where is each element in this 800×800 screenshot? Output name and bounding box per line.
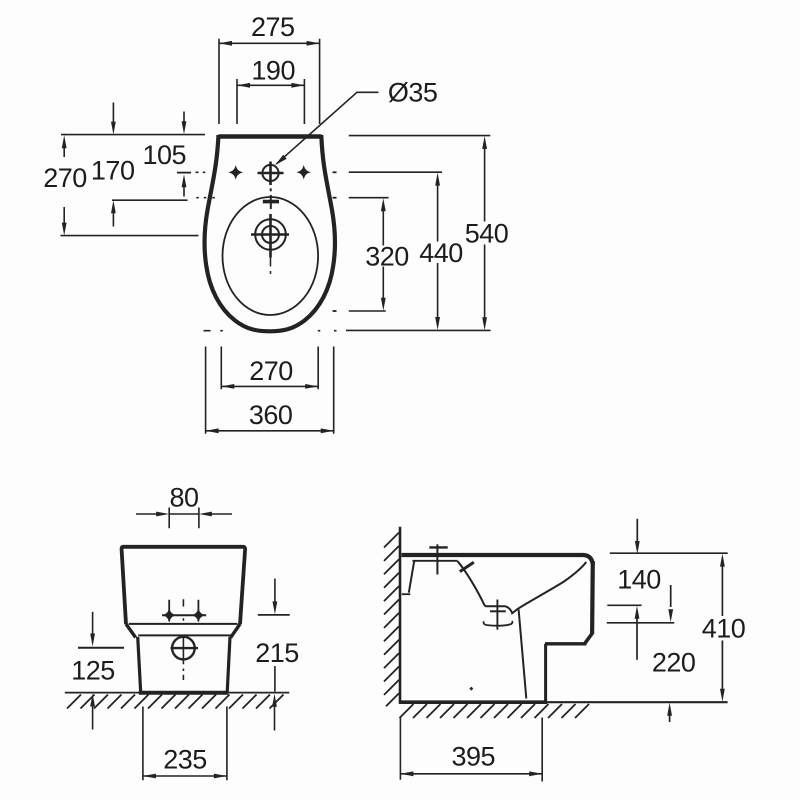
bidet rim top edge (plan) (219, 134, 322, 139)
svg-text:275: 275 (251, 12, 295, 42)
right reference line oval-top level (349, 197, 389, 199)
left fixing star (230, 167, 241, 178)
drain crosshair (251, 214, 289, 258)
dot before 320 bottom line (333, 310, 337, 312)
svg-text:170: 170 (91, 156, 135, 186)
reference line 220 top (607, 622, 674, 624)
fixing hole verticals (169, 600, 198, 622)
left chamfer to pedestal (126, 624, 136, 638)
bidet body outline (plan egg shape) (204, 135, 335, 331)
dim 275 line (219, 42, 320, 44)
trap center crossbar (490, 610, 506, 612)
front ground line thin (65, 692, 289, 694)
svg-text:105: 105 (143, 140, 187, 170)
dim 105 arrows (183, 112, 185, 124)
trap bottom arc (484, 621, 513, 626)
bottom tangent dash-dots (204, 330, 337, 332)
bowl interior profile (458, 561, 587, 613)
dim 320 (381, 198, 386, 311)
bidet front outline: top rim (122, 547, 246, 624)
dim 125 top arrow (92, 612, 94, 634)
dim 190 line (237, 84, 304, 86)
dim 80 arrowheads (156, 512, 212, 517)
svg-text:235: 235 (163, 745, 207, 775)
side ground hatch (400, 704, 590, 718)
right fixing star (298, 167, 309, 178)
svg-text:395: 395 (452, 742, 496, 772)
svg-text:80: 80 (169, 483, 198, 513)
svg-text:270: 270 (43, 163, 87, 193)
wall line (399, 527, 402, 702)
dim 80 line (136, 513, 232, 515)
fixing holes cross line (162, 614, 206, 616)
dim 125 reference tick (78, 647, 124, 649)
inner bowl oval (222, 197, 318, 315)
svg-text:190: 190 (251, 56, 295, 86)
svg-text:215: 215 (255, 638, 299, 668)
dim 215 lower shaft (274, 666, 276, 692)
dim 215 bottom arrow below ground (272, 694, 277, 707)
dim 80 extension ticks (169, 508, 199, 529)
dim 395 arrowheads (400, 771, 542, 776)
pedestal right edge (227, 637, 230, 693)
drain centerline dot left (204, 235, 207, 237)
dim 105 bottom tick (177, 172, 191, 174)
O35 leader arrowhead (275, 155, 287, 165)
dim 220 bottom arrow below ground (667, 703, 672, 716)
side rim inner line (413, 560, 458, 562)
front drain circle (172, 637, 195, 660)
drain pipe front line (519, 610, 527, 699)
drain centerline tail (270, 258, 272, 267)
right reference line top (rim level) (610, 552, 728, 554)
fixing hole star right (193, 610, 204, 621)
left reference line top (rim level) (61, 134, 205, 136)
oval-top centerline dots left (196, 197, 215, 199)
dim 235 extension lines (143, 707, 227, 781)
tap centerline dash-dots right (333, 171, 337, 173)
pedestal left edge (138, 637, 141, 693)
side rim top line (402, 555, 593, 564)
overflow slant tick (460, 562, 474, 571)
dim 125 bottom arrow below ground (90, 694, 95, 707)
dirt speck (469, 687, 473, 691)
right chamfer to pedestal (231, 624, 240, 638)
step front edge (544, 644, 547, 702)
tap centerline dash-dots left (196, 171, 206, 173)
right reference line tap level (349, 171, 442, 173)
dim 275 extension lines (219, 39, 320, 124)
svg-text:Ø35: Ø35 (388, 78, 438, 108)
svg-text:360: 360 (249, 400, 293, 430)
wall hatch (384, 533, 399, 707)
back inlet hook line (409, 561, 415, 593)
trap centerline vertical (496, 600, 498, 630)
step top line (545, 642, 587, 645)
dim 215 reference tick (258, 614, 290, 616)
dim 270 bottom arrowheads (221, 384, 318, 389)
svg-text:140: 140 (617, 564, 661, 594)
front ground hatch (67, 695, 284, 709)
left reference line low (drain level) (61, 235, 199, 237)
fixing hole star left (164, 610, 175, 621)
right reference line rim level (349, 135, 491, 137)
svg-text:125: 125 (71, 655, 115, 685)
dim 360 extension lines (206, 347, 334, 434)
oval-top centerline dots right (333, 197, 337, 199)
dim 410 (720, 554, 725, 702)
dim 395 extension lines (400, 718, 542, 782)
front ground line thick under foot (139, 691, 228, 695)
side tap hole centerline (436, 544, 438, 574)
dim 275 arrowheads (219, 41, 320, 46)
front drain crosshair (171, 647, 199, 649)
right reference line bottom (egg bottom level) (346, 329, 491, 331)
dim 215 top arrow (274, 579, 276, 602)
dim 190 extension lines (237, 79, 304, 124)
pedestal top line (138, 634, 231, 636)
dim 140 top arrow (636, 519, 638, 550)
dim 360 arrowheads (206, 428, 334, 433)
side ground line thin (547, 701, 728, 703)
centerline dot between tap and plus-mark (270, 188, 272, 191)
dim 140 bottom arrow (up) (635, 606, 640, 619)
dim 170 arrows (112, 103, 114, 126)
dim 190 arrowheads (237, 83, 304, 88)
dim 270 bottom line (221, 385, 318, 387)
svg-text:540: 540 (465, 219, 509, 249)
dim 440 (435, 173, 440, 330)
left reference line mid (oval top level) (112, 199, 188, 201)
drain outer circle (255, 219, 286, 250)
side tap hole tick (429, 546, 447, 548)
svg-text:320: 320 (365, 242, 409, 272)
dim 235 arrowheads (143, 774, 227, 779)
front centerline dash-dot (182, 599, 184, 680)
dim 540 (482, 136, 487, 330)
side front (right) edge (590, 561, 595, 634)
right reference line 320 bottom (349, 310, 386, 312)
dim 270 bottom extension lines (221, 347, 318, 390)
tap hole circle (O35) (262, 165, 278, 181)
drain inner circle (262, 226, 279, 243)
dim 220 top arrow (down) (670, 585, 672, 607)
dim 270 left arrows (62, 135, 67, 235)
svg-text:220: 220 (652, 647, 696, 677)
svg-text:440: 440 (419, 238, 463, 268)
tap hole crosshair (258, 162, 284, 186)
dim 360 line (206, 430, 334, 432)
reference line 140 bottom (607, 604, 641, 606)
bowl waist line (129, 623, 238, 625)
dim 395 line (400, 773, 542, 775)
side ground line thick (399, 700, 547, 704)
O35 leader line (277, 92, 379, 164)
front lower chamfer (585, 634, 592, 644)
oval top vertex plus-mark (263, 200, 279, 204)
svg-text:270: 270 (249, 356, 293, 386)
dim 235 line (143, 775, 227, 777)
svg-text:410: 410 (702, 614, 746, 644)
back inlet hook tick (402, 593, 411, 595)
